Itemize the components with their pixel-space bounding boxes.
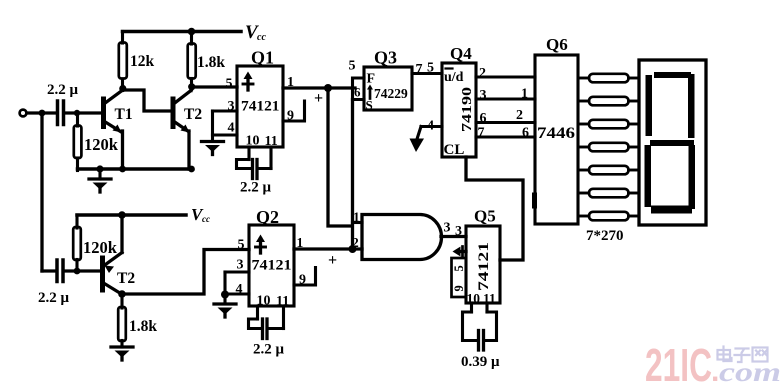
pin A arrow glyph Q2	[256, 235, 266, 254]
node Vcc2 T2 collector	[118, 211, 126, 219]
svg-text:5: 5	[452, 265, 466, 271]
wire Q1 pins to ground	[211, 111, 214, 141]
watermark char zi	[736, 347, 749, 349]
svg-text:0.39 μ: 0.39 μ	[461, 354, 500, 370]
svg-text:T2: T2	[184, 106, 202, 123]
svg-text:120k: 120k	[84, 135, 119, 154]
wire capacitor to T1 base	[65, 111, 101, 114]
svg-text:21IC: 21IC	[645, 339, 712, 391]
pin 10 stub Q2	[256, 306, 259, 319]
svg-text:5: 5	[427, 61, 434, 76]
decoder Q6 7446 box	[535, 55, 578, 224]
op-amp U1 74121 Q1 box	[237, 66, 283, 147]
svg-text:6: 6	[354, 85, 361, 100]
ground Q4 arrow	[410, 127, 425, 153]
wire to Q3 pin6	[353, 88, 365, 100]
svg-text:T1: T1	[115, 106, 133, 123]
wire Vcc rail top	[123, 30, 242, 34]
resistor bank R6 7x270	[578, 74, 639, 221]
svg-text:com: com	[719, 357, 781, 387]
svg-text:T2: T2	[117, 270, 135, 287]
pin A arrow glyph Q1	[243, 72, 253, 91]
svg-text:11: 11	[483, 291, 496, 306]
svg-text:7: 7	[416, 62, 423, 77]
wire net L2 vertical from Q3 pin6	[351, 100, 354, 250]
watermark 21IC.com	[645, 339, 781, 391]
svg-text:3: 3	[444, 221, 451, 236]
node 1.8k bottom	[188, 83, 195, 90]
svg-text:9: 9	[299, 273, 306, 288]
pin 10 stub Q1	[247, 147, 250, 160]
svg-text:10: 10	[467, 291, 481, 306]
svg-text:F: F	[367, 72, 376, 87]
svg-text:3: 3	[228, 99, 235, 114]
svg-text:1.8k: 1.8k	[197, 54, 225, 71]
svg-text:1.8k: 1.8k	[129, 318, 157, 335]
segment top-left	[646, 75, 653, 136]
pin 4 wire Q1	[213, 133, 238, 136]
wire Vcc rail second stage	[77, 213, 186, 217]
label 74229 Q3	[367, 85, 373, 99]
pin 3 wire Q1	[213, 109, 238, 112]
wire Q4 pin7 to Q6	[476, 135, 535, 138]
pin 4 wire Q4	[421, 125, 442, 128]
seven segment display box	[639, 60, 706, 225]
svg-text:4: 4	[236, 282, 243, 297]
AND gate U2	[362, 215, 442, 260]
wire AND output to Q5	[441, 235, 466, 238]
input terminal	[20, 110, 27, 117]
wire input to capacitor	[27, 111, 56, 114]
node input junction	[39, 110, 46, 117]
svg-text:S: S	[366, 98, 373, 113]
op-amp U3 74121 Q2 box	[249, 225, 294, 306]
wire to Q3 pin5	[353, 78, 365, 88]
svg-text:+: +	[328, 252, 337, 269]
resistor 1.8k R5	[120, 294, 123, 308]
svg-text:9: 9	[287, 109, 294, 124]
flip-flop Q3 74229 box	[364, 67, 412, 110]
svg-text:4: 4	[427, 119, 434, 134]
wire Q3 pin7 to Q4 pin5	[412, 72, 442, 75]
wire emitter ground rail	[78, 167, 192, 171]
node 12k bottom	[119, 85, 126, 92]
wire Q4 pin2 to Q6	[476, 75, 535, 78]
ground Q1	[202, 142, 224, 155]
svg-text:5: 5	[226, 77, 233, 92]
svg-text:Q1: Q1	[251, 48, 274, 68]
transistor T1	[101, 99, 106, 127]
svg-text:6: 6	[522, 126, 529, 141]
node T2b emitter	[118, 290, 126, 298]
svg-text:6: 6	[480, 111, 487, 126]
wire blob on Q6 left edge	[532, 195, 537, 206]
watermark char dian	[718, 350, 731, 360]
svg-text:1: 1	[297, 235, 304, 250]
resistor 1.8k R3	[190, 32, 193, 45]
svg-text:7*270: 7*270	[586, 228, 624, 244]
segment middle	[650, 140, 694, 146]
capacitor C1 2.2u plates	[56, 101, 60, 125]
svg-text:Q4: Q4	[450, 44, 472, 63]
svg-text:2: 2	[516, 108, 523, 123]
node AND input2 junction	[349, 245, 357, 253]
svg-text:2: 2	[479, 66, 486, 81]
segment bottom-right	[689, 145, 696, 209]
svg-text:74121: 74121	[476, 242, 492, 291]
node Q2 ground junction	[221, 291, 229, 299]
one-shot Q5 74121 box	[466, 226, 500, 303]
pin 3 wire Q2	[225, 270, 249, 273]
svg-text:3: 3	[480, 88, 487, 103]
svg-text:7446: 7446	[537, 125, 575, 142]
svg-text:u/d: u/d	[444, 70, 464, 85]
capacitor 0.39u Q5 bracket	[463, 312, 478, 341]
wire net L1 vertical from Q1 output junction	[328, 88, 352, 226]
resistor 120k R1	[76, 113, 79, 126]
pin 9 bracket Q1	[283, 101, 305, 121]
pin 11 stub Q1	[269, 147, 272, 169]
svg-text:CL: CL	[444, 142, 465, 158]
svg-text:2.2 μ: 2.2 μ	[253, 342, 285, 358]
transistor T2	[171, 99, 176, 127]
svg-text:2.2 μ: 2.2 μ	[47, 82, 79, 98]
ground Q2	[214, 304, 236, 317]
wire Q5 output to Q4 CL	[466, 157, 523, 260]
segment top-right	[688, 74, 695, 138]
resistor 120k R4	[75, 215, 78, 228]
svg-text:2.2 μ: 2.2 μ	[240, 180, 272, 196]
wire vertical down to second stage	[40, 113, 43, 271]
node 120k2 bottom base	[74, 268, 81, 275]
wire Q2 output to AND	[294, 247, 362, 250]
svg-text:74121: 74121	[241, 99, 280, 115]
pin 4 wire Q2	[225, 292, 249, 295]
pin 11 stub Q2	[282, 306, 285, 329]
node 120k top	[74, 110, 80, 116]
node rail ground	[96, 165, 103, 172]
svg-text:1: 1	[353, 210, 360, 225]
node rail T2 emitter	[188, 166, 195, 173]
wire T2b emitter to Q2 pin5	[122, 250, 249, 295]
segment bottom-left	[645, 145, 652, 207]
svg-text:9: 9	[452, 285, 466, 291]
ground R5	[111, 347, 133, 360]
ground stage1	[98, 169, 101, 179]
svg-text:2.2 μ: 2.2 μ	[38, 290, 70, 306]
svg-text:120k: 120k	[83, 238, 118, 257]
wire left vertical to C2	[42, 269, 56, 272]
wire 1.8k node to Q1 pin5	[192, 85, 238, 88]
svg-text:3: 3	[455, 224, 462, 239]
wire Q4 pin6 to Q6	[476, 121, 535, 124]
watermark char wang	[753, 348, 768, 362]
svg-text:74190: 74190	[459, 87, 474, 132]
svg-text:5: 5	[349, 59, 356, 74]
pin 9 bracket Q2	[294, 268, 316, 286]
svg-text:12k: 12k	[130, 53, 155, 70]
svg-text:Q5: Q5	[474, 207, 496, 226]
svg-text:3: 3	[237, 258, 244, 273]
svg-text:74229: 74229	[374, 86, 408, 101]
svg-text:74121: 74121	[252, 258, 292, 274]
node Q1 output junction	[324, 84, 332, 92]
svg-text:1: 1	[521, 87, 528, 102]
node rail T1 emitter	[119, 166, 126, 173]
svg-text:Q2: Q2	[256, 207, 279, 227]
svg-text:Q3: Q3	[374, 48, 397, 68]
wire T1 collector to T2 base	[123, 90, 171, 111]
wire Q1 output	[283, 86, 355, 89]
capacitor C2 2.2u plates	[55, 260, 59, 282]
svg-text:Q6: Q6	[546, 35, 568, 54]
wire C2 to T2b base	[65, 269, 101, 272]
counter Q4 74190 box	[442, 63, 476, 157]
capacitor 2.2u Q2 bracket	[249, 319, 262, 329]
pin 10 stub Q5	[470, 303, 473, 312]
svg-text:5: 5	[238, 238, 245, 253]
wire AND input1 stub	[353, 221, 363, 224]
svg-text:4: 4	[228, 121, 235, 136]
svg-text:cc: cc	[257, 32, 266, 43]
svg-text:+: +	[314, 90, 323, 107]
pin 5 9 bracket Q5	[452, 258, 467, 297]
wire Q2 pins to ground	[223, 272, 226, 303]
svg-text:cc: cc	[202, 214, 210, 224]
capacitor 2.2u Q1 bracket	[237, 160, 251, 169]
pin A arrow glyph Q5 rotated	[453, 247, 467, 257]
resistor 12k R2	[121, 32, 124, 44]
segment top	[654, 72, 691, 78]
svg-text:7: 7	[478, 126, 485, 141]
transistor T2 second stage	[100, 258, 105, 290]
segment bottom	[651, 206, 692, 214]
pin 11 stub Q5	[485, 303, 488, 312]
node Vcc 1.8k	[188, 28, 196, 36]
wire Q4 pin3 to Q6	[476, 97, 535, 100]
